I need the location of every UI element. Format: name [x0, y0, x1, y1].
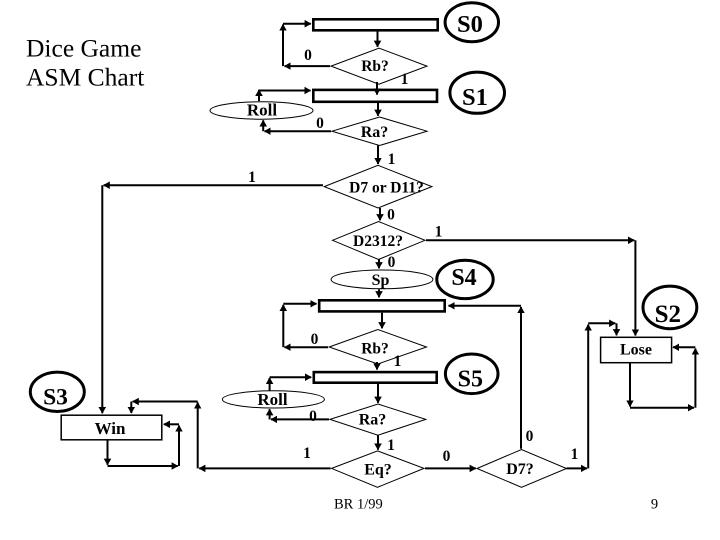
state label ellipse S3: [30, 372, 84, 411]
wire Win loop into Win box: [164, 423, 179, 425]
decision D7?: [477, 450, 567, 488]
wire D2312-1 down to Lose: [634, 240, 636, 335]
state box S5: [314, 372, 437, 383]
svg-text:S4: S4: [451, 265, 476, 291]
wire Eq?-1 left: [199, 467, 330, 469]
state label ellipse S4: [437, 260, 493, 298]
svg-text:D2312?: D2312?: [353, 233, 403, 250]
wire Roll2 top up: [269, 378, 271, 391]
wire Ra?2-1 down to Eq?: [377, 435, 379, 450]
conditional output oval Sp: [331, 270, 433, 289]
wire D7orD11-1 left long: [104, 184, 323, 186]
svg-text:0: 0: [443, 448, 451, 465]
svg-text:Ra?: Ra?: [361, 124, 389, 141]
conditional output oval Roll (upper): [210, 101, 313, 120]
decision D2312?: [333, 222, 426, 260]
wire Rb?-0 left: [285, 65, 331, 67]
state label ellipse S1: [450, 72, 505, 113]
wire Win loop down: [107, 441, 109, 465]
svg-text:1: 1: [394, 353, 402, 370]
wire Ra?-0 up into Roll oval: [262, 120, 264, 131]
wire Rb?2-0 into S4 box: [283, 303, 316, 305]
wire Ra?-1 down to D7 or D11?: [377, 146, 379, 165]
wire D2312-1 right long: [426, 239, 634, 241]
wire S5 box to Ra?2: [377, 383, 379, 403]
wire S0 box to Rb? decision: [377, 32, 379, 47]
wire Lose loop right: [630, 407, 694, 409]
svg-text:Dice Game: Dice Game: [26, 34, 141, 63]
wire D7?-1 down into Lose: [616, 323, 618, 335]
svg-text:0: 0: [526, 428, 534, 445]
decision Rb? (second): [329, 330, 426, 365]
svg-text:D7?: D7?: [506, 461, 534, 478]
svg-text:D7 or D11?: D7 or D11?: [349, 179, 424, 196]
svg-text:1: 1: [303, 445, 311, 462]
svg-text:1: 1: [571, 446, 579, 463]
wire D7?-1 up: [587, 325, 589, 469]
svg-text:Sp: Sp: [372, 272, 390, 289]
svg-text:Rb?: Rb?: [361, 58, 389, 75]
state box Win: [61, 415, 162, 440]
svg-text:0: 0: [311, 331, 319, 348]
svg-text:0: 0: [316, 115, 324, 132]
wire D2312-0 into Sp oval: [378, 260, 380, 269]
svg-text:0: 0: [304, 47, 312, 64]
wire D7?-0 up: [520, 307, 522, 449]
wire Sp oval to S4 box: [378, 289, 380, 297]
wire D7orD11-0 down to D2312?: [379, 208, 381, 220]
wire Lose loop into Lose box: [673, 346, 695, 348]
wire D7?-1 right: [567, 467, 588, 469]
svg-text:1: 1: [388, 151, 396, 168]
decision Rb? (first): [331, 48, 427, 84]
wire Ra?2-0 left: [271, 418, 329, 420]
wire Lose loop down: [629, 363, 631, 406]
wire Rb?2-1 into S5 box: [376, 362, 378, 370]
svg-text:Roll: Roll: [247, 101, 278, 120]
svg-text:1: 1: [401, 71, 409, 88]
svg-text:S2: S2: [655, 301, 681, 328]
wire Rb?2-0 left: [285, 346, 329, 348]
wire Win loop up: [178, 426, 180, 467]
title text "Dice Game ASM Chart": [26, 34, 144, 92]
wire Eq?-1 up: [197, 403, 199, 469]
decision Ra? (second): [330, 404, 426, 435]
wire Roll corner into S1 box: [259, 90, 311, 92]
wire Eq?-1 left to Win: [133, 401, 198, 403]
svg-text:1: 1: [248, 169, 256, 186]
state box S1: [313, 90, 437, 102]
svg-text:Roll: Roll: [257, 390, 288, 409]
decision Ra? (first): [332, 117, 427, 146]
svg-text:S1: S1: [462, 84, 488, 111]
svg-text:S0: S0: [457, 11, 483, 38]
svg-text:S3: S3: [43, 384, 68, 410]
state label ellipse S0: [445, 3, 498, 42]
state box S4: [319, 300, 445, 311]
svg-text:S5: S5: [458, 366, 483, 392]
svg-text:Ra?: Ra?: [359, 412, 387, 429]
svg-text:0: 0: [387, 207, 395, 224]
decision Eq?: [332, 451, 424, 487]
wire Ra?2-0 up into Roll2 oval: [269, 409, 271, 419]
wire Ra?-0 left: [265, 130, 332, 132]
svg-text:1: 1: [435, 224, 443, 241]
wire Eq?-0 right to D7?: [425, 467, 476, 469]
wire S4 box to Rb?2: [381, 313, 383, 329]
wire S1 box to Ra? decision: [377, 103, 379, 116]
svg-text:9: 9: [651, 497, 658, 513]
svg-text:Eq?: Eq?: [364, 462, 392, 479]
state box Lose: [601, 337, 672, 362]
svg-text:BR 1/99: BR 1/99: [334, 497, 383, 513]
state label ellipse S2: [643, 286, 697, 329]
wire Rb?-0 up: [282, 25, 284, 67]
decision D7 or D11?: [324, 165, 432, 208]
wire Roll2 corner into S5 box: [270, 376, 312, 378]
conditional output oval Roll (lower): [222, 390, 324, 409]
svg-text:Win: Win: [95, 419, 126, 438]
wire D7orD11-1 down to Win: [101, 185, 103, 413]
svg-text:0: 0: [309, 408, 317, 425]
state box S0: [313, 19, 437, 30]
wire Win loop right: [108, 465, 178, 467]
wire D7?-0 left into S4 box: [449, 305, 522, 307]
svg-text:Rb?: Rb?: [361, 341, 389, 358]
svg-text:0: 0: [388, 254, 396, 271]
wire Lose loop up: [694, 349, 696, 408]
wire Rb?-1 into S1 box: [376, 82, 378, 95]
wire Rb?2-0 up: [282, 305, 284, 347]
wire D7?-1 right toward Lose: [588, 322, 615, 324]
svg-text:Lose: Lose: [620, 342, 652, 359]
svg-text:1: 1: [387, 437, 395, 454]
wire Rb?-0 into S0 box: [283, 23, 311, 25]
state label ellipse S5: [445, 354, 498, 394]
svg-text:ASM Chart: ASM Chart: [26, 63, 144, 92]
wire Roll top up: [258, 90, 260, 101]
wire Eq?-1 down into Win: [130, 402, 132, 414]
